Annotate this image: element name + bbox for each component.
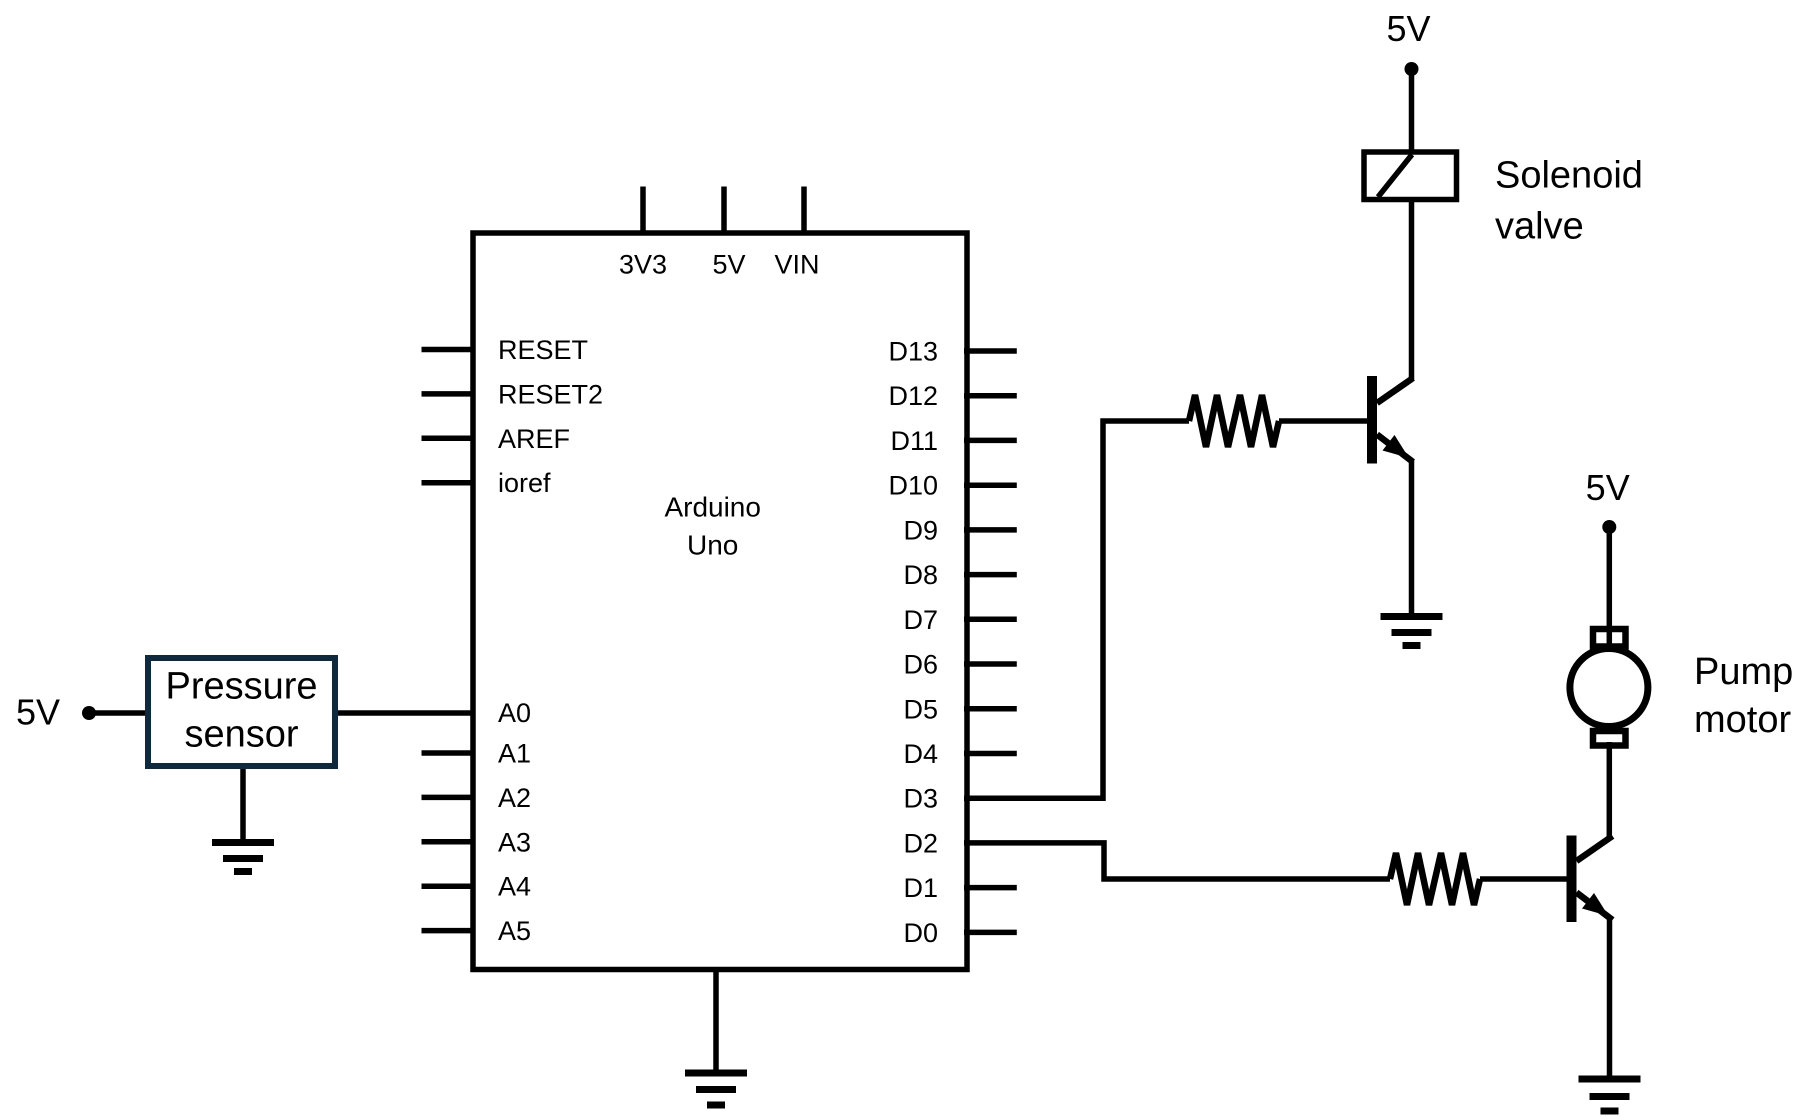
svg-text:D1: D1 [903,873,938,903]
svg-text:VIN: VIN [774,250,819,280]
wire 5V to solenoid valve [1409,69,1415,153]
svg-text:Pressure: Pressure [165,666,317,708]
svg-text:D10: D10 [888,471,938,501]
pin D13 stub [964,348,1017,354]
svg-text:5V: 5V [1386,8,1430,49]
svg-text:D8: D8 [903,560,938,590]
wire arduino ground stem [713,970,719,1072]
svg-text:motor: motor [1694,699,1791,741]
pin ioref stub [422,480,474,486]
svg-text:A5: A5 [498,916,531,946]
pin AREF stub [422,436,474,442]
svg-text:ioref: ioref [498,468,551,498]
svg-text:AREF: AREF [498,424,570,454]
resistor R2 [1390,853,1480,905]
pin D11 stub [964,438,1017,444]
svg-text:5V: 5V [1586,467,1630,508]
svg-text:3V3: 3V3 [619,250,667,280]
pin RESET stub [422,347,474,353]
wire R2 to Q2 base [1480,876,1567,882]
svg-text:D3: D3 [903,784,938,814]
pin 5V stub [721,187,727,234]
wire Q1 emitter to ground [1409,460,1415,615]
pin VIN stub [801,187,807,234]
pin D7 stub [964,617,1017,623]
svg-text:Solenoid: Solenoid [1495,155,1643,197]
wire R1 to Q1 base [1279,418,1367,424]
svg-text:5V: 5V [16,692,60,733]
pin D12 stub [964,393,1017,399]
pin D8 stub [964,572,1017,578]
pin D5 stub [964,706,1017,712]
ground arduino [685,1073,747,1105]
ground Q2 [1579,1079,1641,1111]
svg-text:A4: A4 [498,872,531,902]
pin D1 stub [964,885,1017,891]
pin D9 stub [964,527,1017,533]
svg-text:Uno: Uno [687,530,738,561]
svg-text:A0: A0 [498,698,531,728]
transistor Q1 [1367,376,1413,464]
pin A4 stub [422,883,474,889]
pin RESET2 stub [422,391,474,397]
arduino U1 box [473,233,967,970]
wire net D3 to resistor R1 [964,421,1189,798]
ground Q1 [1381,617,1443,646]
svg-text:D7: D7 [903,605,938,635]
svg-text:D0: D0 [903,918,938,948]
node dot 5V solenoid [1405,62,1419,76]
pin A3 stub [422,839,474,845]
pin D10 stub [964,482,1017,488]
pin 3V3 stub [640,187,646,234]
solenoid valve coil [1364,152,1457,200]
node dot 5V pump [1602,520,1616,534]
svg-text:RESET2: RESET2 [498,379,603,409]
svg-text:A2: A2 [498,783,531,813]
transistor Q2 [1567,836,1613,923]
svg-text:A1: A1 [498,739,531,769]
svg-text:RESET: RESET [498,335,588,365]
svg-text:Arduino: Arduino [664,492,761,523]
svg-text:Pump: Pump [1694,651,1793,693]
svg-text:valve: valve [1495,206,1584,248]
wire pressure sensor ground stem [240,769,246,841]
svg-text:D13: D13 [888,337,938,367]
svg-text:D12: D12 [888,381,938,411]
pin D0 stub [964,930,1017,936]
wire 5V to pump motor [1607,527,1613,644]
wire motor to Q2 collector [1607,742,1613,838]
pin A5 stub [422,928,474,934]
wire net D2 to resistor R2 [964,843,1390,879]
motor M1 pump [1570,629,1648,746]
pin A1 stub [422,750,474,756]
svg-text:5V: 5V [712,250,745,280]
svg-text:sensor: sensor [184,714,298,756]
wire pressure sensor to A0 [338,710,473,716]
svg-text:D5: D5 [903,694,938,724]
wire 5V to pressure sensor [89,710,146,716]
svg-text:D6: D6 [903,650,938,680]
node dot 5V left [82,706,96,720]
pin A2 stub [422,795,474,801]
ground pressure sensor [212,843,274,872]
svg-text:D9: D9 [903,515,938,545]
pin D6 stub [964,661,1017,667]
svg-text:D11: D11 [890,426,938,456]
svg-text:D2: D2 [903,828,938,858]
svg-text:D4: D4 [903,739,938,769]
wire solenoid valve to Q1 collector [1409,200,1415,380]
wire Q2 emitter to ground [1607,918,1613,1078]
pin D4 stub [964,751,1017,757]
resistor R1 [1189,395,1279,447]
pressure sensor box [148,658,335,766]
svg-text:A3: A3 [498,827,531,857]
